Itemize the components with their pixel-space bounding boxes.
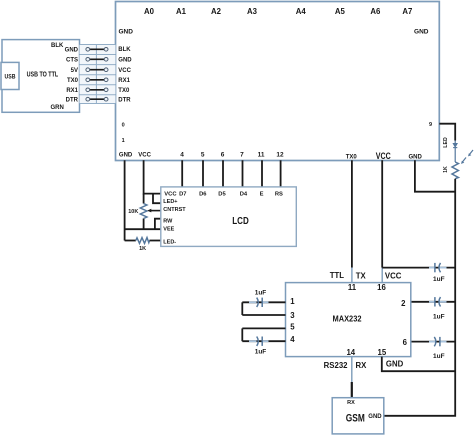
wire pin5 row [242, 327, 285, 329]
svg-text:1uF: 1uF [433, 314, 445, 321]
svg-text:VCC: VCC [164, 192, 177, 198]
svg-text:VCC: VCC [376, 151, 391, 162]
svg-text:0: 0 [122, 123, 125, 129]
wire cap C4 left link [241, 302, 243, 315]
wire VEE branch [125, 228, 161, 230]
svg-text:BLK: BLK [51, 43, 64, 49]
wire LED- right segment [150, 240, 161, 242]
svg-text:6: 6 [221, 152, 225, 159]
wire pin1 cap row [242, 301, 285, 303]
svg-text:1uF: 1uF [255, 348, 267, 355]
capacitor C1 1uF [429, 263, 447, 272]
svg-text:GND: GND [118, 57, 132, 63]
svg-text:LED: LED [443, 137, 449, 148]
LED D1 [453, 141, 457, 163]
wire VCC cap row [382, 267, 455, 269]
wire TX0 to MAX232 pin 11 [351, 160, 353, 267]
svg-text:LED-: LED- [163, 239, 176, 245]
capacitor C5 1uF [249, 337, 269, 346]
svg-text:11: 11 [258, 152, 265, 159]
capacitor C3 1uF [429, 337, 447, 346]
svg-text:RX: RX [347, 400, 355, 406]
jumper wire J3 5V-VCC [86, 68, 108, 72]
svg-text:GND: GND [409, 155, 423, 161]
ground rail wire [384, 179, 455, 416]
svg-text:5V: 5V [71, 68, 78, 74]
wire RS [280, 160, 282, 187]
svg-text:1uF: 1uF [255, 290, 267, 297]
svg-text:RS: RS [275, 192, 283, 198]
svg-text:1uF: 1uF [433, 276, 445, 283]
svg-text:15: 15 [378, 348, 387, 357]
svg-text:A5: A5 [335, 7, 346, 16]
wire pot bottom stub [143, 219, 145, 230]
potentiometer 10K [140, 204, 147, 219]
svg-text:GND: GND [65, 47, 79, 53]
capacitor C4 1uF [249, 298, 269, 307]
svg-text:1uF: 1uF [433, 353, 445, 360]
svg-text:9: 9 [429, 122, 432, 128]
microcontroller board U1 [116, 2, 440, 161]
wire pin 16 stub [381, 268, 383, 283]
svg-text:A0: A0 [144, 7, 155, 16]
svg-text:A3: A3 [247, 7, 258, 16]
svg-text:GND: GND [386, 360, 404, 369]
jumper wire J2 CTS-GND [86, 58, 108, 62]
MAX232 U2 [286, 283, 411, 357]
svg-text:3: 3 [290, 311, 295, 320]
svg-text:USB: USB [5, 75, 17, 81]
wire pot top stub [143, 194, 145, 204]
wire D7 [181, 160, 183, 187]
svg-text:A2: A2 [211, 7, 222, 16]
svg-text:E: E [260, 192, 264, 198]
svg-text:1K: 1K [443, 166, 449, 173]
wire pin 15 GND to rail [382, 357, 455, 372]
svg-text:TX0: TX0 [67, 78, 79, 84]
svg-text:4: 4 [290, 335, 295, 344]
wire cap C5 left link [241, 328, 243, 341]
jumper wire J4 TX0-RX1 [86, 78, 108, 82]
wire GND to ground rail [415, 160, 455, 191]
connector ladder frame [80, 45, 116, 104]
svg-text:RX1: RX1 [66, 88, 78, 94]
svg-text:CTS: CTS [66, 57, 78, 63]
wire pin 14 stub [351, 357, 353, 382]
svg-text:LED+: LED+ [163, 199, 177, 205]
svg-text:RW: RW [163, 218, 173, 224]
svg-text:RS232: RS232 [324, 361, 349, 370]
wire VCC net to LCD [144, 160, 161, 193]
svg-text:TX: TX [356, 271, 367, 280]
svg-text:14: 14 [346, 348, 355, 357]
svg-text:D6: D6 [199, 192, 207, 198]
svg-text:GND: GND [119, 29, 134, 36]
svg-text:VCC: VCC [138, 153, 151, 159]
wire D6 [202, 160, 204, 187]
resistor 1K LCD backlight [136, 238, 150, 244]
svg-text:5: 5 [201, 152, 205, 159]
svg-text:GSM: GSM [346, 413, 365, 425]
wire pin 11 stub [351, 268, 353, 283]
svg-text:RX: RX [356, 361, 368, 370]
svg-text:MAX232: MAX232 [333, 314, 362, 324]
USB port [1, 62, 19, 89]
svg-text:D7: D7 [179, 192, 186, 198]
wire pin3 row [242, 314, 285, 316]
LED light arrow 1 [468, 150, 473, 156]
svg-text:GND: GND [414, 29, 429, 36]
jumper wire J5 RX1-TX0 [86, 88, 108, 92]
svg-text:11: 11 [348, 283, 357, 292]
wire E [261, 160, 263, 187]
svg-text:12: 12 [276, 152, 284, 159]
wire VCC to MAX232 pin 16 [381, 160, 383, 267]
LCD module [161, 187, 296, 247]
svg-text:1: 1 [122, 138, 125, 144]
svg-text:6: 6 [403, 338, 408, 347]
svg-text:1K: 1K [139, 246, 146, 252]
LED light arrow 2 [461, 158, 466, 164]
wire pin 9 to LED [439, 124, 455, 141]
svg-text:A6: A6 [370, 7, 381, 16]
svg-text:BLK: BLK [118, 47, 131, 53]
svg-text:DTR: DTR [118, 97, 131, 103]
resistor 1K LED [452, 162, 458, 179]
wire D4 [242, 160, 244, 187]
potentiometer wiper wire [150, 210, 161, 212]
GSM module [332, 398, 384, 434]
wire LED- left segment [125, 240, 136, 242]
wire pin 14 to GSM RX [351, 382, 353, 398]
jumper wire J1 GND-BLK [86, 48, 108, 52]
svg-text:5: 5 [290, 323, 295, 332]
svg-text:VCC: VCC [118, 68, 131, 74]
svg-text:A7: A7 [402, 7, 412, 16]
svg-text:D5: D5 [218, 192, 226, 198]
wire pin 2 cap row [411, 301, 455, 303]
svg-text:GRN: GRN [51, 105, 64, 111]
svg-text:CNTRST: CNTRST [163, 207, 186, 213]
svg-text:TTL: TTL [330, 271, 345, 280]
svg-text:D4: D4 [240, 192, 248, 198]
svg-text:USB TO TTL: USB TO TTL [27, 71, 59, 78]
svg-text:TX0: TX0 [346, 155, 358, 161]
svg-text:GND: GND [368, 414, 382, 420]
svg-text:TX0: TX0 [118, 88, 130, 94]
wire pin 6 cap row [411, 341, 455, 343]
svg-text:VEE: VEE [163, 226, 174, 232]
svg-text:4: 4 [180, 152, 184, 159]
svg-text:LCD: LCD [232, 216, 249, 227]
svg-text:A1: A1 [176, 7, 187, 16]
wire D5 [222, 160, 224, 187]
svg-text:2: 2 [401, 299, 406, 308]
svg-text:A4: A4 [296, 7, 307, 16]
svg-text:1: 1 [290, 297, 295, 306]
jumper wire J6 DTR-DTR [86, 97, 108, 101]
wire GND net to LCD [124, 160, 126, 240]
USB TO TTL module [2, 40, 80, 113]
svg-text:7: 7 [240, 152, 244, 159]
svg-text:DTR: DTR [66, 97, 79, 103]
capacitor C2 1uF [429, 297, 447, 306]
svg-text:16: 16 [377, 283, 386, 292]
potentiometer wiper arrow [147, 209, 151, 213]
svg-text:RX1: RX1 [118, 78, 130, 84]
svg-text:10K: 10K [128, 209, 138, 215]
wire RW stub [155, 219, 161, 230]
svg-text:GND: GND [119, 153, 133, 159]
wire LED+ stub [153, 194, 161, 204]
svg-text:VCC: VCC [385, 272, 402, 281]
wire pin4 cap row [242, 340, 285, 342]
